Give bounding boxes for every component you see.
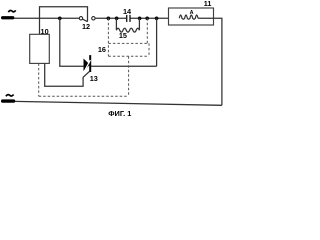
node: junction dot before switch [58, 16, 62, 20]
wire: bottom rail [15, 101, 222, 105]
svg-text:A: A [190, 10, 194, 16]
wire: box 10 to top rail [39, 18, 41, 34]
capacitor C14 plates [126, 15, 128, 22]
resistor R15 zigzag [116, 28, 139, 32]
node at dashed box left corner [107, 16, 111, 20]
box 11 (load) [169, 8, 214, 25]
box 10 (control unit) [30, 34, 50, 63]
dashed control link horizontal [39, 95, 129, 97]
wire: top rail from source to switch contact [14, 17, 80, 19]
wire: gate lead from triac to box 10 [45, 63, 90, 86]
wire: right rail [198, 18, 222, 105]
triac Q13 bar [89, 55, 91, 72]
heating element A zigzag [179, 15, 198, 19]
triac Q13 triangle [84, 59, 91, 72]
wire: triac to return rail [90, 65, 157, 67]
svg-text:13: 13 [90, 74, 98, 83]
wire: top rail from switch to capacitor [95, 17, 127, 19]
svg-text:10: 10 [41, 27, 49, 36]
wire: bypass branch up-and-over to switch blade [40, 7, 88, 21]
wire: return from node down to triac cathode side [156, 18, 158, 66]
dashed enclosure right side [147, 18, 149, 56]
dashed control link from box 16 down [128, 56, 130, 96]
wire: RC left bracket [115, 18, 117, 30]
wire: RC right bracket [138, 18, 140, 30]
svg-text:12: 12 [82, 22, 90, 31]
switch 12 [79, 17, 82, 20]
svg-text:16: 16 [98, 45, 106, 54]
dashed control link from box 10 down [38, 63, 40, 96]
svg-text:11: 11 [204, 0, 212, 8]
node at dashed box right corner [145, 16, 149, 20]
svg-text:14: 14 [123, 7, 132, 16]
dashed enclosure around snubber (left side) [107, 18, 109, 56]
wire: top rail from capacitor to load resistor [130, 17, 179, 19]
node at RC left bracket [115, 16, 119, 20]
node above triac return [155, 16, 159, 20]
svg-text:ФИГ. 1: ФИГ. 1 [108, 109, 131, 118]
wire: branch down from node to triac anode [60, 18, 84, 66]
AC source terminal top-left (~) [8, 10, 15, 12]
dashed divider [108, 42, 149, 44]
node at RC right bracket [138, 16, 142, 20]
dashed box 16 bottom [108, 55, 149, 57]
triac white slash [85, 60, 91, 71]
svg-text:15: 15 [119, 31, 127, 40]
AC source terminal bottom-left (~) [6, 95, 14, 97]
